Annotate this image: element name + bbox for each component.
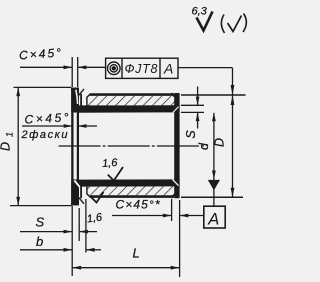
S dim line [20, 231, 72, 233]
svg-text:D: D [213, 138, 227, 147]
roughness check bottom 1,6 [91, 192, 104, 203]
d arrow up [212, 113, 216, 122]
2 faski dim lines [22, 125, 72, 127]
d dimension line [213, 113, 215, 207]
D top extension line [181, 94, 246, 96]
Cx45* arrow right-pointing [163, 214, 172, 218]
flange section fill bottom [71, 179, 79, 205]
housing right chamfer bottom [171, 190, 179, 198]
liner bottom band (blackened thin section) [77, 179, 180, 186]
bore chamfer right top (white cut) [173, 107, 179, 113]
svg-text:2фаски: 2фаски [21, 129, 68, 141]
housing right chamfer top [171, 93, 179, 101]
S right arrow up [196, 112, 200, 121]
L arrow left end [72, 266, 81, 270]
L right extension [179, 200, 181, 277]
arrow CX45 top right-pointing [64, 65, 73, 69]
S right extension (flange right face) [78, 208, 80, 241]
b dim line [20, 249, 72, 251]
S right arrow down [196, 97, 200, 106]
2faski arrow left-pointing [78, 124, 87, 128]
flange section fill top [71, 88, 79, 113]
concentricity symbol [108, 62, 121, 75]
flange white fill streak bottom [74, 180, 80, 188]
L arrow right end [171, 266, 180, 270]
D1 arrow up [16, 87, 20, 96]
arrow CX45 top left-pointing [78, 65, 87, 69]
Cx45* arrow left-pointing [180, 214, 189, 218]
d arrow down at bore line [212, 171, 216, 180]
b right extension [85, 199, 87, 253]
hatched housing top wall [86, 96, 179, 106]
svg-text:C×45°*: C×45°* [116, 198, 160, 212]
b arrow left-pointing [86, 248, 95, 252]
datum triangle on d line [208, 180, 220, 191]
svg-text:b: b [36, 234, 43, 249]
D arrow down [231, 188, 235, 198]
C x 45* extension lines [171, 199, 173, 221]
D arrow up [231, 95, 235, 105]
S b L left extension line (flange left face) [71, 206, 73, 276]
svg-text:A: A [207, 211, 219, 229]
svg-text:1,6: 1,6 [86, 211, 104, 225]
flange bottom edge line [71, 203, 79, 205]
flange right face line [77, 89, 79, 204]
hatched housing bottom wall [86, 186, 179, 195]
dim line C x 45 top with arrows [20, 66, 72, 68]
tolerance frame [106, 58, 178, 78]
roughness check bold below 6,3 [197, 12, 213, 31]
2faski arrow right-pointing [64, 124, 73, 128]
D dimension line [232, 68, 234, 197]
flange white fill streak top [76, 90, 78, 104]
b arrow right-pointing [64, 248, 73, 252]
C x 45* dim line [112, 215, 171, 217]
extension lines above flange for C x 45 [71, 57, 73, 87]
S arrow right-pointing [64, 230, 73, 234]
parenthesis left [221, 15, 224, 34]
leader arrow down onto D [231, 85, 235, 95]
housing left face line bottom [80, 186, 82, 198]
label C x 45 top [19, 46, 62, 63]
D1 top extension line [14, 86, 72, 88]
svg-text:1: 1 [5, 132, 15, 137]
svg-text:D: D [0, 142, 13, 151]
housing bottom outer surface line [90, 195, 174, 198]
D1 arrow down [16, 197, 20, 206]
D1 dimension line [17, 88, 19, 205]
svg-text:S: S [36, 215, 45, 230]
housing left face line [80, 94, 82, 106]
S arrow left-pointing [79, 230, 88, 234]
roughness check on bore 1,6 [108, 167, 123, 181]
flange OD chamfer line bottom right [79, 197, 84, 203]
check in parens [228, 16, 242, 32]
datum A box [204, 206, 225, 228]
L dim line [73, 267, 179, 269]
housing top outer surface line [90, 93, 174, 96]
flange left face line [71, 88, 73, 206]
centerline (axis) [59, 145, 206, 147]
svg-text:6,3: 6,3 [192, 6, 208, 18]
svg-text:1,6: 1,6 [102, 157, 119, 170]
housing left step face bottom [87, 186, 90, 197]
housing left step face top [87, 94, 90, 106]
liner top band (blackened thin section) [77, 105, 180, 112]
tolerance frame leader [179, 67, 233, 69]
svg-text:L: L [133, 246, 140, 261]
bore chamfer right bottom (white cut) [173, 180, 179, 186]
svg-text:d: d [197, 142, 211, 150]
S right side extension lines [181, 104, 204, 106]
svg-text:A: A [163, 61, 173, 77]
svg-text:S: S [184, 130, 198, 139]
flange OD chamfer line top right [79, 89, 84, 95]
svg-text:ФJT8: ФJT8 [125, 62, 158, 76]
S right dim line lower stub [197, 113, 199, 129]
label C x 45 2 faski [24, 110, 69, 126]
S right dim line upper stub [197, 87, 199, 105]
flange top edge line [71, 88, 79, 90]
parenthesis right [243, 14, 246, 33]
D bottom extension line [181, 196, 243, 198]
D1 bottom extension line [10, 205, 72, 207]
bushing end face (right) [174, 93, 179, 198]
